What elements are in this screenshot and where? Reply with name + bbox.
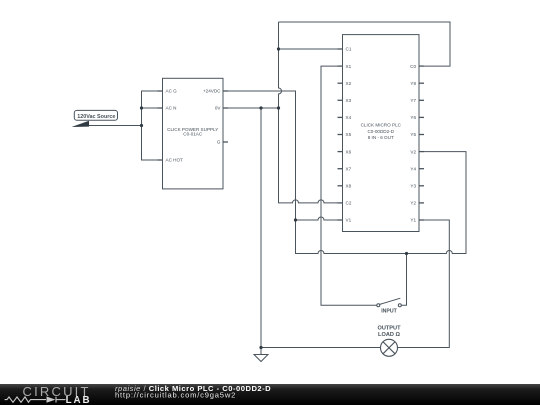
svg-text:CLICK MICRO PLC: CLICK MICRO PLC [361, 123, 402, 128]
svg-text:X6: X6 [346, 149, 352, 154]
svg-text:LOAD Ω: LOAD Ω [378, 332, 400, 338]
svg-text:C1: C1 [346, 47, 352, 52]
svg-text:C2: C2 [346, 201, 352, 206]
svg-text:V1: V1 [346, 218, 352, 223]
svg-text:C0-01AC: C0-01AC [183, 132, 203, 137]
svg-text:http://circuitlab.com/c9ga5w2: http://circuitlab.com/c9ga5w2 [115, 390, 236, 399]
svg-text:X3: X3 [346, 98, 352, 103]
svg-text:Y4: Y4 [410, 166, 416, 171]
svg-text:X5: X5 [346, 132, 352, 137]
svg-text:120Vac Source: 120Vac Source [77, 114, 115, 120]
svg-text:Y2: Y2 [410, 201, 416, 206]
svg-text:X4: X4 [346, 115, 352, 120]
svg-text:X8: X8 [346, 184, 352, 189]
svg-text:X7: X7 [346, 166, 352, 171]
svg-text:Y3: Y3 [410, 184, 416, 189]
svg-text:+24VDC: +24VDC [203, 89, 221, 94]
svg-text:INPUT: INPUT [381, 308, 397, 314]
svg-text:Y8: Y8 [410, 81, 416, 86]
svg-text:0V: 0V [215, 106, 222, 111]
svg-text:Y6: Y6 [410, 115, 416, 120]
svg-text:V2: V2 [410, 149, 416, 154]
svg-text:Y5: Y5 [410, 132, 416, 137]
svg-text:LAB: LAB [66, 395, 92, 405]
svg-text:C0-00DD2-D: C0-00DD2-D [367, 129, 394, 134]
svg-text:X2: X2 [346, 81, 352, 86]
svg-text:AC HOT: AC HOT [166, 158, 184, 163]
svg-text:X1: X1 [346, 64, 352, 69]
svg-text:Y7: Y7 [410, 98, 416, 103]
svg-text:C0: C0 [410, 64, 416, 69]
svg-text:OUTPUT: OUTPUT [378, 326, 402, 332]
svg-text:G: G [217, 140, 221, 145]
svg-text:AC G: AC G [166, 89, 178, 94]
svg-text:Y1: Y1 [410, 218, 416, 223]
svg-text:AC N: AC N [166, 106, 177, 111]
svg-text:8 IN - 6 OUT: 8 IN - 6 OUT [368, 135, 394, 140]
